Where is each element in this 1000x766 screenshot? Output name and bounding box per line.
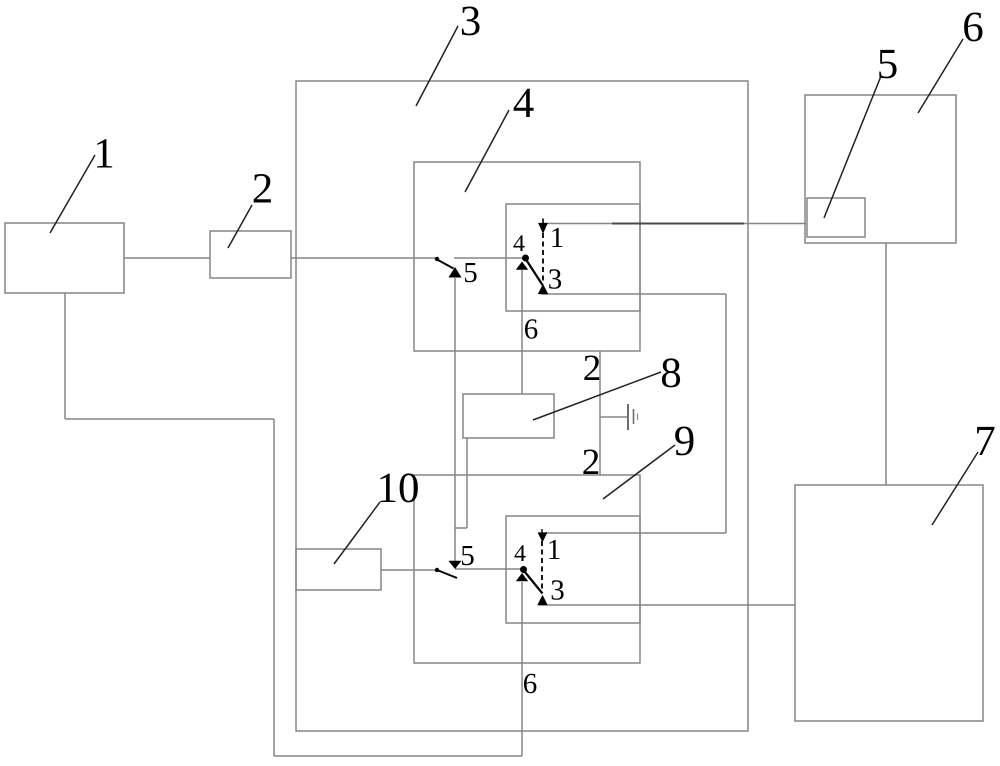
box 3 — [296, 81, 748, 731]
svg-text:5: 5 — [463, 257, 478, 289]
svg-text:6: 6 — [523, 668, 538, 700]
wire box10 to lower pivot — [381, 569, 437, 571]
box 1 — [5, 223, 124, 293]
svg-text:1: 1 — [93, 131, 115, 178]
svg-text:10: 10 — [377, 465, 420, 512]
svg-text:2: 2 — [583, 348, 602, 389]
svg-text:5: 5 — [460, 540, 475, 572]
lower switch pivot dot — [435, 568, 439, 572]
leader 7 — [932, 452, 978, 525]
ground tap — [600, 416, 628, 418]
net 2 vertical — [599, 351, 601, 475]
lower arm pin4-pin3 — [525, 572, 543, 594]
upper pin1 stub — [542, 219, 544, 225]
wire outer left vertical — [273, 419, 275, 756]
leader 5 — [824, 76, 881, 218]
lower pin1 stub — [541, 529, 543, 534]
wire box8 join — [455, 527, 467, 529]
box 7 — [795, 485, 983, 721]
svg-text:9: 9 — [674, 418, 696, 465]
svg-text:4: 4 — [513, 231, 525, 257]
svg-text:8: 8 — [660, 350, 682, 397]
wire lower pin1 horizontal — [545, 532, 726, 534]
lower pin4 dot — [520, 566, 527, 573]
upper switch arm — [438, 260, 454, 269]
box 2 — [210, 231, 291, 278]
upper pin4 dot — [522, 255, 529, 262]
leader 2 — [228, 205, 252, 248]
wire lower pin3 to box7 — [539, 604, 795, 606]
wire pin1 upper to box5 (light segment) — [546, 223, 806, 225]
svg-text:4: 4 — [513, 80, 535, 127]
upper arrow 6 — [516, 262, 528, 270]
svg-text:6: 6 — [524, 314, 539, 346]
lower pin3 triangle — [538, 596, 547, 605]
svg-text:6: 6 — [962, 4, 984, 51]
box 9 outer — [414, 475, 640, 663]
upper switch pivot dot — [435, 257, 439, 261]
box 8 — [463, 394, 554, 438]
box 10 — [296, 549, 381, 590]
wire lower gap to pin4 — [455, 568, 524, 570]
box 4 inner — [506, 204, 640, 311]
box 6 — [805, 95, 956, 243]
wire pin3 upper right — [541, 293, 726, 295]
leader 8 — [533, 372, 661, 420]
wire lower pin6 down — [521, 582, 523, 756]
leader 9 — [603, 445, 675, 499]
lower arrow 6 — [516, 573, 528, 581]
leader 10 — [334, 502, 380, 564]
box 9 inner — [506, 516, 640, 623]
wire switch gap to pin4 upper — [454, 257, 524, 259]
wire pin1 upper to box5 (dark segment) — [612, 223, 744, 225]
lower switch arm — [437, 570, 457, 578]
svg-text:3: 3 — [548, 264, 563, 296]
lower dashed link — [541, 541, 543, 592]
svg-text:3: 3 — [460, 0, 482, 45]
upper dashed link — [542, 233, 544, 283]
wire pin6 upper to box8 — [521, 270, 523, 394]
upper arm pin4-pin3 — [526, 260, 543, 286]
svg-text:2: 2 — [252, 166, 274, 213]
ground bars — [627, 404, 629, 430]
wire box8 bottom down — [466, 438, 468, 528]
wire box1 down — [64, 293, 66, 419]
leader 1 — [50, 155, 95, 233]
svg-text:4: 4 — [514, 541, 526, 567]
upper pin1 triangle — [539, 223, 547, 233]
upper arrow 5 — [449, 267, 462, 278]
wire left horizontal — [65, 418, 274, 420]
wire pin5 upper down — [454, 278, 456, 561]
svg-text:5: 5 — [877, 41, 899, 88]
svg-text:3: 3 — [550, 575, 565, 607]
leader 6 — [918, 39, 963, 113]
svg-text:7: 7 — [974, 418, 996, 465]
svg-text:1: 1 — [547, 534, 562, 566]
leader 3 — [416, 26, 458, 106]
wire box2-switch pivot — [291, 257, 437, 259]
wire vertical node x726 — [725, 294, 727, 533]
lower arrow 5 (down) — [449, 561, 462, 569]
wire box1-box2 — [124, 257, 210, 259]
box 5 — [807, 198, 865, 237]
svg-text:1: 1 — [550, 222, 565, 254]
leader 4 — [465, 110, 509, 192]
wire bottom rail — [274, 755, 522, 757]
svg-text:2: 2 — [582, 442, 601, 483]
upper pin3 triangle — [539, 285, 548, 294]
box 4 outer — [414, 162, 640, 351]
lower pin1 triangle — [538, 533, 546, 542]
wire box6-box7 — [885, 243, 887, 485]
